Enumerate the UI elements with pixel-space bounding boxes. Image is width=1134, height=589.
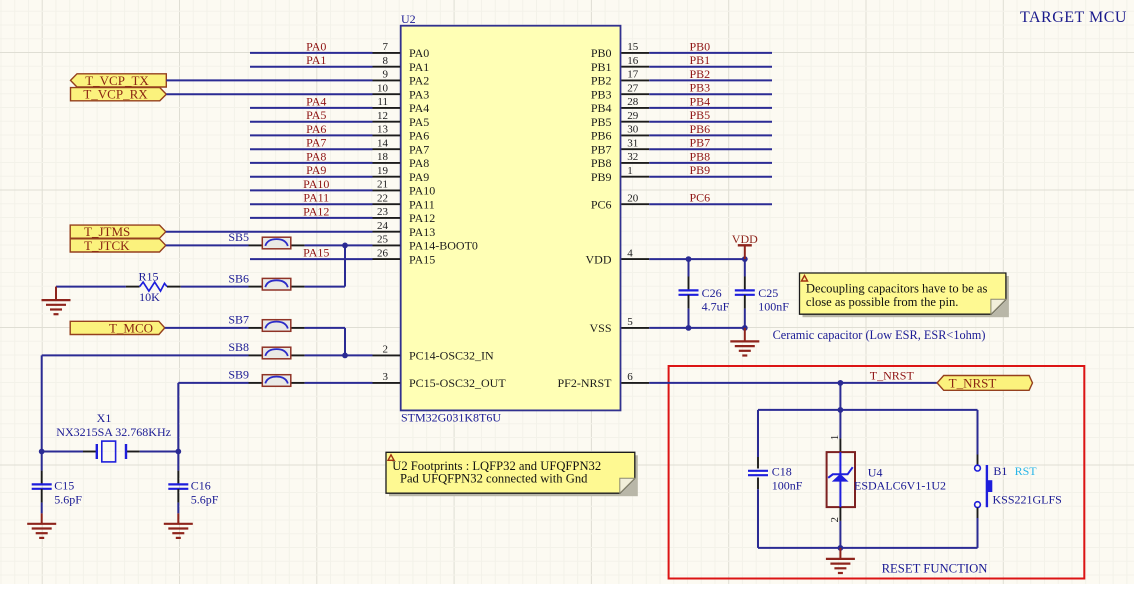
svg-text:6: 6 (627, 371, 633, 383)
svg-text:7: 7 (383, 41, 389, 53)
svg-text:100nF: 100nF (758, 300, 789, 314)
svg-text:PC6: PC6 (690, 191, 711, 205)
svg-text:ESDALC6V1-1U2: ESDALC6V1-1U2 (854, 479, 946, 493)
svg-text:PA0: PA0 (409, 46, 429, 60)
svg-text:9: 9 (383, 69, 389, 81)
svg-text:PB3: PB3 (690, 81, 711, 95)
svg-text:PA5: PA5 (409, 115, 429, 129)
svg-text:5.6pF: 5.6pF (54, 492, 82, 506)
svg-text:C15: C15 (54, 479, 74, 493)
svg-text:PA12: PA12 (303, 204, 329, 218)
svg-text:PB4: PB4 (690, 94, 711, 108)
svg-text:PA12: PA12 (409, 211, 435, 225)
svg-text:PB8: PB8 (690, 149, 711, 163)
svg-text:25: 25 (377, 234, 389, 246)
svg-text:PA5: PA5 (306, 108, 326, 122)
svg-text:SB5: SB5 (228, 230, 249, 244)
svg-text:24: 24 (377, 220, 389, 232)
svg-text:PA4: PA4 (409, 101, 429, 115)
svg-text:PA7: PA7 (409, 142, 429, 156)
svg-text:PB7: PB7 (591, 142, 612, 156)
svg-text:15: 15 (627, 41, 639, 53)
svg-text:SB6: SB6 (228, 271, 249, 285)
svg-text:PB8: PB8 (591, 156, 612, 170)
svg-text:PA8: PA8 (306, 149, 326, 163)
svg-text:U4: U4 (868, 465, 883, 479)
svg-text:10: 10 (377, 83, 389, 95)
svg-text:PB9: PB9 (591, 170, 612, 184)
svg-text:10K: 10K (139, 290, 160, 304)
svg-text:16: 16 (627, 55, 639, 67)
svg-text:PA1: PA1 (306, 53, 326, 67)
svg-text:SB9: SB9 (228, 368, 249, 382)
svg-text:STM32G031K8T6U: STM32G031K8T6U (401, 411, 501, 425)
svg-text:PA6: PA6 (306, 122, 326, 136)
svg-text:PC6: PC6 (591, 197, 612, 211)
svg-text:PA9: PA9 (409, 170, 429, 184)
svg-text:NX3215SA 32.768KHz: NX3215SA 32.768KHz (56, 425, 171, 439)
svg-text:Pad UFQFPN32 connected with Gn: Pad UFQFPN32 connected with Gnd (400, 471, 588, 485)
svg-text:KSS221GLFS: KSS221GLFS (993, 492, 1062, 506)
svg-text:SB8: SB8 (228, 340, 249, 354)
svg-text:14: 14 (377, 138, 389, 150)
svg-text:4.7uF: 4.7uF (702, 300, 730, 314)
svg-text:TARGET MCU: TARGET MCU (1020, 9, 1127, 26)
svg-text:30: 30 (627, 124, 639, 136)
svg-text:11: 11 (377, 96, 388, 108)
svg-text:C16: C16 (191, 479, 211, 493)
svg-text:PB1: PB1 (591, 60, 612, 74)
svg-text:RST: RST (1015, 464, 1038, 478)
svg-text:PA7: PA7 (306, 136, 326, 150)
svg-text:PA4: PA4 (306, 94, 326, 108)
svg-text:100nF: 100nF (772, 478, 803, 492)
svg-text:T_JTCK: T_JTCK (84, 238, 130, 253)
svg-text:T_NRST: T_NRST (870, 369, 915, 383)
svg-text:2: 2 (829, 517, 841, 523)
svg-text:PA15: PA15 (409, 252, 435, 266)
svg-text:8: 8 (383, 55, 389, 67)
svg-text:PB0: PB0 (690, 39, 711, 53)
svg-text:PA10: PA10 (303, 177, 329, 191)
svg-text:PA11: PA11 (303, 191, 329, 205)
svg-text:Decoupling capacitors have to: Decoupling capacitors have to be as (806, 282, 988, 296)
svg-text:12: 12 (377, 110, 388, 122)
svg-text:PA11: PA11 (409, 197, 435, 211)
svg-text:PA3: PA3 (409, 87, 429, 101)
svg-text:PA8: PA8 (409, 156, 429, 170)
svg-text:U2: U2 (401, 12, 416, 26)
svg-text:23: 23 (377, 206, 389, 218)
svg-text:VDD: VDD (586, 252, 612, 266)
svg-text:PA10: PA10 (409, 184, 435, 198)
svg-text:27: 27 (627, 83, 639, 95)
svg-text:VSS: VSS (589, 321, 611, 335)
svg-text:PB3: PB3 (591, 87, 612, 101)
svg-text:PC14-OSC32_IN: PC14-OSC32_IN (409, 349, 494, 363)
svg-text:RESET FUNCTION: RESET FUNCTION (882, 562, 988, 576)
svg-text:PB7: PB7 (690, 136, 711, 150)
svg-text:PB5: PB5 (591, 115, 612, 129)
svg-text:X1: X1 (97, 411, 112, 425)
svg-text:PB6: PB6 (591, 129, 612, 143)
svg-text:2: 2 (383, 344, 389, 356)
svg-text:PA15: PA15 (303, 246, 329, 260)
svg-text:26: 26 (377, 247, 389, 259)
svg-text:4: 4 (627, 247, 633, 259)
svg-text:PA14-BOOT0: PA14-BOOT0 (409, 239, 478, 253)
svg-text:PA2: PA2 (409, 74, 429, 88)
svg-text:31: 31 (627, 138, 638, 150)
svg-text:5.6pF: 5.6pF (191, 492, 219, 506)
svg-text:20: 20 (627, 193, 639, 205)
svg-text:19: 19 (377, 165, 389, 177)
svg-text:PB2: PB2 (591, 74, 612, 88)
svg-text:PF2-NRST: PF2-NRST (557, 376, 612, 390)
svg-text:13: 13 (377, 124, 389, 136)
svg-text:21: 21 (377, 179, 388, 191)
svg-text:C18: C18 (772, 464, 792, 478)
svg-text:PA13: PA13 (409, 225, 435, 239)
svg-text:T_VCP_TX: T_VCP_TX (85, 73, 149, 88)
svg-text:PB5: PB5 (690, 108, 711, 122)
svg-text:C26: C26 (702, 286, 722, 300)
svg-text:3: 3 (383, 371, 389, 383)
svg-text:PB1: PB1 (690, 53, 711, 67)
svg-text:PA0: PA0 (306, 39, 326, 53)
svg-text:PB6: PB6 (690, 122, 711, 136)
svg-text:PA9: PA9 (306, 163, 326, 177)
svg-text:close as possible from the pin: close as possible from the pin. (806, 295, 959, 309)
svg-text:SB7: SB7 (228, 313, 249, 327)
svg-text:PA6: PA6 (409, 129, 429, 143)
svg-text:VDD: VDD (732, 232, 758, 246)
svg-text:T_NRST: T_NRST (949, 375, 997, 390)
svg-text:PB2: PB2 (690, 67, 711, 81)
svg-text:C25: C25 (758, 286, 778, 300)
svg-text:17: 17 (627, 69, 639, 81)
svg-text:29: 29 (627, 110, 639, 122)
svg-text:PB0: PB0 (591, 46, 612, 60)
svg-text:18: 18 (377, 151, 389, 163)
svg-text:1: 1 (829, 435, 841, 441)
svg-text:PA1: PA1 (409, 60, 429, 74)
svg-text:PB4: PB4 (591, 101, 612, 115)
svg-text:5: 5 (627, 316, 633, 328)
svg-text:22: 22 (377, 193, 388, 205)
svg-text:T_VCP_RX: T_VCP_RX (83, 87, 148, 102)
svg-text:Ceramic capacitor (Low ESR, ES: Ceramic capacitor (Low ESR, ESR<1ohm) (773, 328, 986, 342)
svg-text:R15: R15 (138, 269, 158, 283)
svg-text:PB9: PB9 (690, 163, 711, 177)
svg-text:PC15-OSC32_OUT: PC15-OSC32_OUT (409, 376, 506, 390)
svg-text:28: 28 (627, 96, 639, 108)
svg-text:32: 32 (627, 151, 638, 163)
svg-text:T_MCO: T_MCO (109, 320, 153, 335)
svg-text:1: 1 (627, 165, 633, 177)
svg-text:B1: B1 (993, 464, 1007, 478)
